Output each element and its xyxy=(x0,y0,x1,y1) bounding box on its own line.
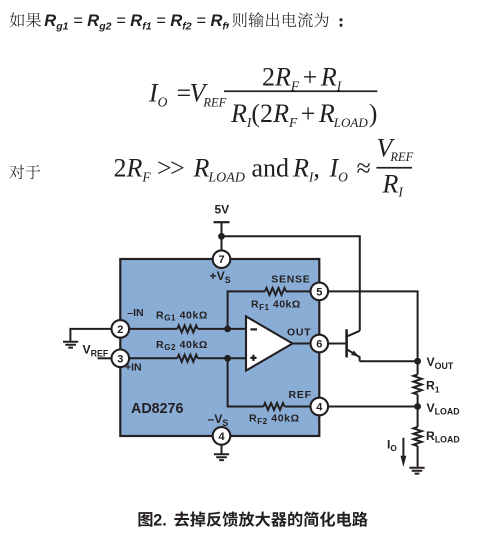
svg-text:–IN: –IN xyxy=(127,307,143,319)
transistor Q1 collector xyxy=(347,331,360,337)
node op-amp plus junction xyxy=(224,355,231,362)
svg-text:OUT: OUT xyxy=(287,326,311,338)
label duiyu xyxy=(9,165,40,180)
formula 2: 2Rf >> Rload and Ri, Io ~ Vref/Ri xyxy=(114,134,414,200)
wire riser to RF2 xyxy=(228,358,311,406)
svg-text:+IN: +IN xyxy=(125,362,142,374)
wire pin5 SENSE to Vout node xyxy=(328,291,418,357)
pin 5 SENSE xyxy=(311,283,329,301)
svg-text:>>: >> xyxy=(157,154,184,183)
wire Rg2 row xyxy=(129,357,246,359)
wire op-amp output to pin6 xyxy=(293,343,311,345)
node 5V junction xyxy=(218,233,225,240)
svg-text:2RF+RI: 2RF+RI xyxy=(262,63,343,94)
transistor Q1 base bar xyxy=(345,329,348,357)
svg-text:RG1 40kΩ: RG1 40kΩ xyxy=(156,309,208,322)
svg-text:and: and xyxy=(252,154,290,183)
resistor RF2 xyxy=(264,403,285,410)
wire pin4b to ground xyxy=(221,445,223,454)
svg-text:REF: REF xyxy=(289,389,312,401)
svg-text:AD8276: AD8276 xyxy=(131,401,184,417)
pin 4 REF xyxy=(311,398,329,416)
svg-text:7: 7 xyxy=(218,254,224,266)
node Vout xyxy=(414,358,421,365)
pin 4 -Vs xyxy=(213,427,231,445)
svg-text:4: 4 xyxy=(218,431,225,443)
caption figure 2 xyxy=(138,511,367,529)
svg-text:6: 6 xyxy=(316,339,322,351)
pin 3 +IN xyxy=(112,350,130,368)
ground left of Vref xyxy=(63,342,78,348)
svg-text:5: 5 xyxy=(316,286,322,298)
wire pin4 REF to Vload node xyxy=(328,406,418,408)
svg-text:SENSE: SENSE xyxy=(271,273,310,285)
node Vload xyxy=(414,403,421,410)
wire pin2 to ground stub xyxy=(70,329,111,342)
svg-text:RI,: RI, xyxy=(292,154,320,185)
transistor Q1 emitter xyxy=(347,349,360,361)
node op-amp minus junction xyxy=(224,326,231,333)
pin 7 +Vs xyxy=(213,250,231,268)
wire Rg1 row xyxy=(129,328,246,330)
wire pin6 to transistor base xyxy=(328,343,346,345)
svg-text:RF1 40kΩ: RF1 40kΩ xyxy=(251,299,301,312)
svg-text:2.: 2. xyxy=(153,511,167,529)
IC AD8276 body xyxy=(120,259,319,436)
svg-text:2: 2 xyxy=(117,324,123,336)
op-amp U1 xyxy=(246,316,293,370)
resistor RLOAD xyxy=(417,407,419,467)
wire 5V rail to collector xyxy=(222,236,360,330)
resistor RG2 xyxy=(177,355,197,362)
5V supply bar xyxy=(214,221,230,223)
wire emitter to Vout node xyxy=(360,360,418,362)
formula 1: Io = Vref (2Rf+Ri)/(Ri(2Rf+Rload)) xyxy=(148,63,377,131)
heading condition text line xyxy=(10,12,343,33)
svg-text:5V: 5V xyxy=(215,202,230,216)
resistor RF1 xyxy=(265,288,286,295)
wire riser to RF1 xyxy=(228,291,311,329)
svg-text:≈: ≈ xyxy=(357,154,371,183)
pin 6 OUT xyxy=(311,335,329,353)
pin 2 -IN xyxy=(112,320,130,338)
resistor R1 xyxy=(417,361,419,406)
arrow Io xyxy=(402,438,404,457)
ground under -Vs pin xyxy=(214,454,229,460)
resistor RG1 xyxy=(177,325,197,332)
svg-text:3: 3 xyxy=(117,353,123,365)
svg-text:Rg1 = Rg2 = Rf1 = Rf2 = Rf,: Rg1 = Rg2 = Rf1 = Rf2 = Rf, xyxy=(44,12,230,33)
wire 5V vertical to pin 7 xyxy=(221,222,223,250)
svg-text:4: 4 xyxy=(316,402,323,414)
wire Vref stub to pin3 xyxy=(98,357,112,359)
svg-text:RG2 40kΩ: RG2 40kΩ xyxy=(156,339,208,352)
ground under RLOAD xyxy=(409,468,424,474)
svg-text:RF2 40kΩ: RF2 40kΩ xyxy=(249,413,300,426)
